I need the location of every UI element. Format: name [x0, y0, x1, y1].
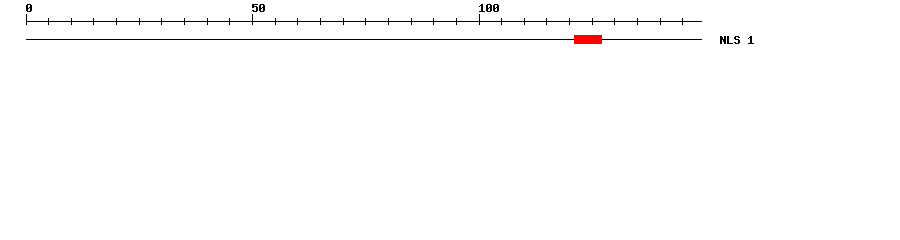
- ruler label 100: [479, 4, 499, 12]
- ruler axis line: [26, 21, 702, 22]
- ruler major ticks (0, 50, 100): [26, 14, 480, 25]
- NLS 1 predicted region box (residues 122-127): [574, 35, 602, 44]
- sequence line: [26, 39, 702, 40]
- background: [0, 0, 900, 58]
- ruler label 0: [26, 4, 32, 12]
- ruler minor ticks (every 5 residues): [48, 18, 683, 25]
- label NLS 1: [720, 36, 754, 44]
- ruler label 50: [252, 4, 265, 12]
